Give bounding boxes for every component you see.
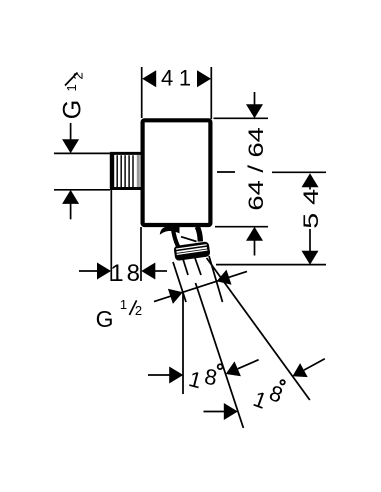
svg-text:5 4: 5 4: [300, 189, 323, 229]
body (wall plate rectangle): [143, 120, 211, 225]
dim 41 ext line left: [141, 67, 143, 118]
dim 64/64 stem top: [254, 92, 256, 105]
dim G1/2 nozzle arrow left: [168, 289, 183, 304]
svg-text:1: 1: [120, 297, 127, 312]
dim G1/2 left ext top: [54, 152, 110, 154]
svg-text:2: 2: [135, 303, 142, 318]
angle dim 1 stem left: [148, 374, 171, 376]
dim 64/64 ext bottom: [215, 226, 268, 228]
nozzle cone line: [181, 237, 197, 242]
dim 54 line lower: [309, 229, 311, 252]
pipe shadow stripe: [137, 155, 140, 187]
dim 64/64 arrow bottom: [246, 227, 263, 241]
dim 54 arrow bottom: [302, 251, 319, 265]
nozzle neck right: [197, 227, 200, 242]
dim 64/64 mid tick left: [217, 171, 235, 173]
svg-text:64 / 64: 64 / 64: [245, 127, 268, 210]
angle dim 1 stem right: [238, 360, 259, 369]
ray 36 degrees: [207, 258, 310, 400]
nozzle nut: [173, 241, 210, 261]
nozzle stub line right: [195, 258, 201, 275]
dim 64/64 stem bottom: [254, 240, 256, 256]
dim 18 ext line right: [140, 227, 142, 281]
ray 18 degrees: [196, 283, 244, 428]
nozzle lip: [160, 227, 180, 235]
nozzle right edge ext line: [209, 256, 223, 302]
dim G1/2 left line lower: [70, 203, 72, 220]
angle dim 2 stem right: [304, 359, 325, 370]
nozzle neck left: [173, 228, 178, 247]
dim 18 stem right: [154, 270, 168, 272]
dim 18 ext line left: [110, 190, 112, 281]
nozzle stub line left: [183, 259, 188, 275]
dim 18 arrow left: [97, 263, 111, 280]
angle dim 1 arrow left: [169, 367, 183, 384]
pipe bottom edge: [110, 187, 141, 190]
dim 54 arrow top: [302, 173, 319, 187]
angle dim 2 text: [250, 380, 286, 414]
dim 41 ext line right: [210, 67, 212, 119]
pipe end face: [110, 153, 114, 189]
pipe thread hatch: [117, 155, 133, 187]
angle dim 2 stem left: [204, 411, 226, 413]
svg-text:G: G: [59, 100, 87, 119]
svg-text:2: 2: [71, 72, 86, 79]
dim 54 line upper: [309, 186, 311, 190]
dim 64/64 arrow top: [246, 104, 263, 118]
nozzle left edge ext line: [173, 262, 186, 302]
dim 41 arrow left: [142, 70, 156, 87]
dim 18 arrow right: [141, 263, 155, 280]
angle dim 2 arrow right: [293, 363, 308, 377]
angle dim 1 text: [186, 364, 222, 394]
dim 41 arrow right: [197, 70, 211, 87]
angle dim 2 arrow left: [224, 403, 238, 420]
dim 64/64 mid tick right: [272, 171, 326, 173]
angle dim 1 arrow right: [226, 361, 241, 376]
pipe top edge: [110, 152, 141, 155]
dim G1/2 left ext bottom: [54, 189, 110, 191]
nozzle end horizontal ext line: [216, 264, 326, 266]
ray vertical reference: [182, 293, 184, 394]
dim 18 stem left: [79, 270, 98, 272]
dim G1/2 left arrow down: [62, 139, 79, 153]
dim G1/2 left line upper: [70, 123, 72, 140]
svg-text:G: G: [96, 306, 114, 332]
dim G1/2 nozzle dim line: [154, 271, 247, 301]
dim G1/2 left arrow up: [62, 190, 79, 204]
dim G1/2 nozzle arrow right: [217, 270, 232, 285]
dim 64/64 ext top: [214, 117, 269, 119]
